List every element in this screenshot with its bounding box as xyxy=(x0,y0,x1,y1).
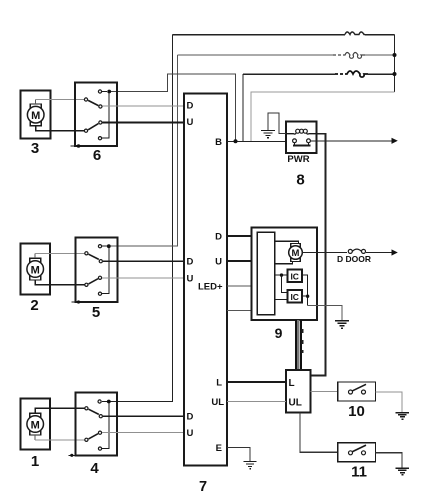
svg-text:U: U xyxy=(187,117,194,128)
wire switch 11 to ground xyxy=(376,453,403,468)
junction IC inputs xyxy=(280,273,283,276)
switch 10 box xyxy=(338,382,376,401)
motor M3 brushes xyxy=(30,104,41,126)
ground (module U9) xyxy=(335,321,349,329)
wire battery feed 2 (second horizontal) xyxy=(178,54,395,56)
motor M3 box xyxy=(21,90,51,138)
svg-text:D: D xyxy=(215,232,222,243)
wire motor2 top lead to switch 5 xyxy=(35,253,84,258)
motor M2 box xyxy=(20,244,50,295)
ground (switch 11) xyxy=(396,468,410,475)
module U7 pin labels left xyxy=(187,101,194,440)
wire motor3 top lead to switch 6 xyxy=(36,100,84,104)
switch 4 top contact xyxy=(98,400,101,403)
switch 5 upper common xyxy=(85,252,88,255)
PWR relay contact pins xyxy=(293,139,311,145)
switch 4 contact U xyxy=(98,431,101,434)
connector L/UL box xyxy=(286,370,311,413)
module U7 box xyxy=(184,94,227,466)
switch 6 lower common xyxy=(84,129,87,132)
switch 5 lower common xyxy=(85,283,88,286)
switch 5 bottom contact xyxy=(98,292,101,295)
svg-text:M: M xyxy=(31,264,40,276)
wire L/UL to switch 10 xyxy=(311,390,338,392)
switch 6 bottom contact xyxy=(98,137,101,140)
svg-text:IC: IC xyxy=(290,271,299,281)
wire battery feed 1 (top horizontal) xyxy=(173,34,395,36)
switch 5 box xyxy=(76,237,118,302)
wire IC1 output xyxy=(302,275,308,305)
wire IC1 input xyxy=(275,274,288,276)
switch 4 box xyxy=(76,393,117,456)
junction bus/feed3 xyxy=(393,72,397,76)
wire switch 10 to ground xyxy=(376,392,403,412)
junction switch 5 feed xyxy=(107,244,111,248)
wire L/UL down to switch 11 xyxy=(300,413,338,453)
switch 5 lower arm xyxy=(89,279,99,284)
svg-text:D: D xyxy=(187,257,194,268)
svg-text:PWR: PWR xyxy=(287,154,309,165)
switch 6 contact D xyxy=(99,105,102,108)
switch 4 internal feed wire xyxy=(102,402,109,449)
module U9 inner connector xyxy=(257,232,275,315)
wire PWR output to right arrow xyxy=(311,140,393,142)
svg-text:LED+: LED+ xyxy=(198,281,223,292)
svg-text:9: 9 xyxy=(275,325,283,341)
switch 4 upper arm xyxy=(89,409,99,414)
wire feed 3 drop to B node xyxy=(242,74,244,141)
wire battery feed 4 (grey, to B line) xyxy=(251,92,395,141)
motor M (door lock) circle xyxy=(289,246,303,260)
wire IC2 input xyxy=(275,298,288,300)
svg-text:U: U xyxy=(187,428,194,439)
svg-text:L: L xyxy=(289,378,295,389)
arrow D DOOR xyxy=(392,249,398,255)
wire U9 ground out xyxy=(308,306,342,321)
wire L from U7 xyxy=(227,381,286,383)
switch 5 internal feed wire xyxy=(102,246,109,294)
wire IC input link xyxy=(282,275,288,293)
wire E to ground xyxy=(227,448,250,462)
svg-text:M: M xyxy=(31,110,40,122)
svg-text:11: 11 xyxy=(351,464,367,481)
wire B node to PWR xyxy=(227,140,292,142)
junction switch 6 feed xyxy=(107,90,111,94)
switch 5 case tick xyxy=(71,300,80,303)
wire switch6 U to module 7 xyxy=(103,122,184,124)
wire switch4 D to module 7 xyxy=(103,415,184,417)
svg-text:1: 1 xyxy=(31,453,39,470)
svg-text:8: 8 xyxy=(296,172,304,189)
motor M2 circle xyxy=(27,261,44,278)
svg-text:7: 7 xyxy=(199,479,207,495)
ground (PWR coil) xyxy=(261,131,275,138)
wire U9 motor output (D DOOR) xyxy=(302,252,393,254)
switch 6 upper arm xyxy=(88,100,98,105)
wire switch5 U to module 7 xyxy=(102,277,184,279)
switch 6 case tick xyxy=(71,144,81,148)
PWR relay 8 box xyxy=(286,122,317,154)
svg-text:10: 10 xyxy=(348,403,365,420)
motor M3 circle xyxy=(27,106,44,123)
junction bus/feed2 xyxy=(393,53,397,57)
motor M1 brushes xyxy=(30,413,41,435)
wire UL from U7 xyxy=(227,401,286,403)
module U9 box xyxy=(252,228,318,321)
svg-text:D DOOR: D DOOR xyxy=(337,254,371,264)
wire motor1 bottom lead to switch 4 xyxy=(35,435,84,440)
svg-text:D: D xyxy=(187,412,194,423)
PWR ground step wire xyxy=(268,113,286,134)
fusible link F2 on feed 2 xyxy=(333,53,365,59)
motor M (door lock) brushes xyxy=(291,244,301,262)
motor M1 box xyxy=(20,399,50,450)
wire PWR coil output down to L/UL connector xyxy=(311,134,326,376)
wire from switch 6 top contact up to feed 3 xyxy=(109,74,235,141)
battery bus vertical (right side) xyxy=(394,35,396,93)
ground (E pin) xyxy=(244,462,257,469)
switch 4 bottom contact xyxy=(98,447,101,450)
fusible link F1 on feed 1 xyxy=(345,32,365,35)
svg-text:UL: UL xyxy=(211,397,224,408)
wire U9 motor top lead xyxy=(275,241,299,243)
switch 6 lower arm xyxy=(88,124,98,130)
svg-text:U: U xyxy=(187,273,194,284)
motor M2 brushes xyxy=(30,258,41,280)
svg-text:6: 6 xyxy=(93,147,101,164)
cable U9 to L/UL connector xyxy=(296,320,303,370)
switch 6 upper common xyxy=(84,98,87,101)
svg-text:4: 4 xyxy=(90,460,99,477)
wire feed 1 vertical drop to switch 4 xyxy=(109,35,173,402)
svg-text:UL: UL xyxy=(289,398,302,409)
switch 6 internal feed wire xyxy=(102,92,109,139)
switch 6 box xyxy=(75,83,117,146)
switch 5 top contact xyxy=(98,245,101,248)
wire motor3 bottom lead to switch 6 xyxy=(36,126,84,131)
svg-text:D: D xyxy=(187,101,194,112)
switch 5 contact D xyxy=(99,260,102,263)
svg-text:M: M xyxy=(292,248,300,259)
svg-text:2: 2 xyxy=(30,297,38,314)
svg-text:L: L xyxy=(216,378,222,389)
wire motor2 bottom lead to switch 5 xyxy=(35,280,84,285)
wire switch6 D to module 7 xyxy=(103,105,184,107)
fusible link F3 on feed 3 xyxy=(335,71,368,77)
motor M1 circle xyxy=(27,416,44,433)
svg-text:B: B xyxy=(215,137,222,148)
switch 4 contact D xyxy=(99,415,102,418)
switch 6 top contact xyxy=(98,90,101,93)
switch 5 upper arm xyxy=(89,254,99,259)
IC U9-2 xyxy=(288,290,303,303)
switch 4 upper common xyxy=(85,407,88,410)
junction B node xyxy=(234,139,238,143)
switch 4 lower common xyxy=(85,438,88,441)
svg-text:E: E xyxy=(216,443,222,454)
switch 4 case tick xyxy=(69,454,75,457)
switch 4 lower arm xyxy=(89,434,99,439)
switch 5 contact U xyxy=(98,276,101,279)
junction IC outputs xyxy=(306,295,309,298)
switch 10 contacts xyxy=(349,384,367,394)
wire battery feed 3 (third horizontal, right part) xyxy=(243,73,395,75)
wire feed 2 vertical drop to switch 5 xyxy=(109,55,178,246)
connector on D DOOR wire xyxy=(348,249,365,253)
wire IC2 output xyxy=(302,295,308,297)
module U9 wires D U LED+ X from U7 xyxy=(227,235,257,237)
svg-text:M: M xyxy=(31,419,40,431)
svg-text:5: 5 xyxy=(92,304,100,321)
arrow PWR output xyxy=(392,138,398,144)
ground (switch 10) xyxy=(396,413,410,419)
wire switch5 D to module 7 xyxy=(103,260,184,262)
module U7 pin labels right xyxy=(198,137,224,454)
IC U9-1 xyxy=(288,270,303,283)
wire switch4 U to module 7 xyxy=(102,432,184,434)
switch 6 contact U xyxy=(99,121,102,124)
svg-text:U: U xyxy=(215,257,222,268)
svg-text:3: 3 xyxy=(31,140,39,157)
PWR relay coil xyxy=(286,129,317,134)
switch 11 box xyxy=(338,443,376,462)
switch 11 contacts xyxy=(349,445,367,455)
wire U9 motor bottom lead xyxy=(275,261,293,263)
svg-text:IC: IC xyxy=(290,292,299,302)
junction switch 4 feed xyxy=(107,400,111,404)
wire motor1 top lead to switch 4 xyxy=(35,408,84,413)
